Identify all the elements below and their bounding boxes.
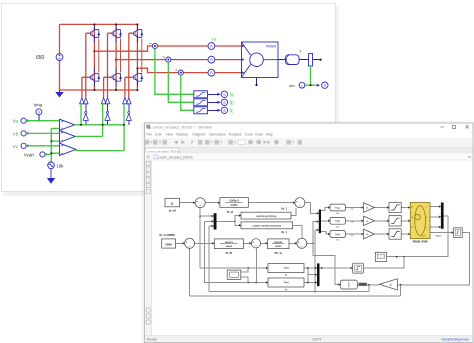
svg-text:(0.4932+0.34*158)*u(1)*u(2)*u(: (0.4932+0.34*158)*u(1)*u(2)*u(3) xyxy=(253,225,282,228)
wire sum5 to PC_iq xyxy=(261,242,268,244)
block PI_W xyxy=(214,239,243,249)
svg-text:Ib: Ib xyxy=(230,101,234,107)
wire gain to sat xyxy=(375,220,390,222)
gate driver leg1.1 xyxy=(80,98,85,104)
gain a xyxy=(364,203,375,213)
current probe b xyxy=(166,57,171,62)
node leg 2 bottom xyxy=(115,89,117,91)
wire machine neutral xyxy=(256,78,258,85)
block PI_id xyxy=(220,198,248,208)
wire mux3 to zoh xyxy=(320,267,353,269)
scope S3 xyxy=(221,107,227,113)
svg-text:Ia: Ia xyxy=(426,207,427,209)
wire w to mux2 in3 xyxy=(315,230,319,292)
mux1 xyxy=(214,213,217,229)
gate driver inverter leg2 xyxy=(105,114,110,121)
svg-text:Ts(z): Ts(z) xyxy=(284,267,289,269)
svg-text:Vma: Vma xyxy=(34,103,43,108)
svg-text:>: > xyxy=(301,84,303,88)
shaft wire xyxy=(278,59,319,61)
schematic window frame xyxy=(2,4,339,196)
wire id blk to mux3 xyxy=(304,267,317,269)
svg-text:id_ref: id_ref xyxy=(169,209,176,213)
node leg 1 top xyxy=(93,23,95,25)
status bar xyxy=(145,336,473,342)
wire to display2 in2 xyxy=(241,277,248,283)
wire probe drop c xyxy=(181,75,194,110)
transistor Q5 bottom xyxy=(112,68,122,86)
sum sum4 xyxy=(297,238,307,248)
wire leg 3 vertical xyxy=(136,24,138,90)
wire PI_id to sum3 xyxy=(248,202,295,204)
block W_ref constant xyxy=(162,239,176,248)
gate driver leg3.1 xyxy=(123,98,128,104)
block rate transition xyxy=(340,280,357,289)
wire zoh out up xyxy=(363,257,404,268)
wire sum3 to mux2 xyxy=(305,203,319,214)
wire F1 to scope xyxy=(208,93,221,95)
svg-text:-K-: -K- xyxy=(389,285,392,287)
wire ts to gain xyxy=(345,233,363,235)
gain c xyxy=(364,229,375,239)
block PMSM_PSIM yellow xyxy=(410,203,430,239)
sum sum1 xyxy=(195,198,205,208)
signal label dark xyxy=(359,283,367,286)
machine PMSM xyxy=(242,42,279,78)
wire fcn2 to sum4 xyxy=(293,225,302,238)
wire mux2 out1 xyxy=(321,208,330,211)
svg-text:pmsm_simulace_R2016: pmsm_simulace_R2016 xyxy=(159,155,193,159)
wire ts to gain xyxy=(345,207,363,209)
voltage source 650 xyxy=(56,54,63,61)
wire sat to pmsm xyxy=(401,233,410,235)
node leg 3 top xyxy=(136,23,138,25)
svg-text:0.005s: 0.005s xyxy=(231,205,239,207)
wire leg 1 diode column xyxy=(98,39,100,73)
svg-text:Ufc: Ufc xyxy=(336,240,339,242)
wire gate bottom Q4 xyxy=(82,77,91,97)
block Ts filter a xyxy=(330,204,345,211)
wire pmsm out xyxy=(430,226,441,228)
wire gate top Q3 xyxy=(129,33,134,97)
svg-text:Vfa: Vfa xyxy=(411,207,414,209)
sum sum3 xyxy=(295,198,305,208)
op-amp comparator U1 xyxy=(60,119,75,130)
block speed sensor xyxy=(454,228,463,238)
wire source leads xyxy=(59,24,61,91)
current probe a xyxy=(152,43,157,48)
block display2 xyxy=(227,270,241,279)
wire driver green drop leg3 xyxy=(123,104,125,125)
svg-text:Ic: Ic xyxy=(230,109,234,115)
gate driver leg3.2 xyxy=(127,98,132,104)
wire merge stub xyxy=(308,268,317,283)
simulink window xyxy=(142,122,474,343)
wire sat to pmsm xyxy=(401,207,410,209)
wire speed feedback right xyxy=(397,233,469,285)
wire gate top Q1 xyxy=(86,33,91,97)
wire phase C xyxy=(137,68,241,72)
transistor Q2 top xyxy=(112,25,122,43)
wire id_ref to sum1 xyxy=(180,202,196,204)
gate driver inverter leg1 xyxy=(83,114,88,121)
wire leg 3 diode column xyxy=(141,39,143,73)
saturation a xyxy=(389,202,401,212)
wire pmsm out xyxy=(430,206,441,208)
gate driver leg1.2 xyxy=(84,98,89,104)
svg-text:650: 650 xyxy=(36,55,45,61)
svg-text:Vcarr: Vcarr xyxy=(24,153,35,158)
wire w to mux1 in3 xyxy=(209,226,214,292)
wire sat to pmsm xyxy=(401,220,410,222)
wire leg 2 diode column xyxy=(120,39,122,73)
block id_ref constant xyxy=(165,198,180,207)
left sidebar xyxy=(145,160,152,335)
node leg 1 phase xyxy=(93,50,95,52)
saturation c xyxy=(389,229,401,239)
svg-text:Ts(z): Ts(z) xyxy=(335,221,340,223)
wire bottom DC rail xyxy=(60,89,138,91)
wire iq row left xyxy=(204,282,268,284)
svg-text:Va: Va xyxy=(13,119,19,125)
svg-text:Edit: Edit xyxy=(155,133,161,137)
wire gate bottom Q6 xyxy=(125,77,134,97)
gain b xyxy=(364,216,375,226)
wire probe drop a xyxy=(155,49,194,95)
wire phase A xyxy=(94,46,241,51)
svg-text:S: S xyxy=(324,84,327,88)
speed sensor block xyxy=(309,54,313,67)
wire top DC rail xyxy=(60,23,138,25)
wire gainL out xyxy=(357,284,379,286)
wire to mux1 in1 xyxy=(200,215,213,217)
svg-text:PC_iq: PC_iq xyxy=(275,251,283,255)
svg-text:-K-: -K- xyxy=(366,234,369,236)
wire gain to sat xyxy=(375,233,390,235)
svg-text:0: 0 xyxy=(171,202,173,206)
wire id feedback up to sum1 xyxy=(200,208,268,268)
svg-text:Ts(z): Ts(z) xyxy=(335,207,340,209)
svg-text:Display: Display xyxy=(177,133,189,137)
wire mux1 out xyxy=(217,220,236,222)
svg-text:Wrpm: Wrpm xyxy=(436,236,442,238)
svg-text:Code: Code xyxy=(245,133,253,137)
svg-text:100%: 100% xyxy=(312,338,322,342)
saturation b xyxy=(389,216,401,226)
wire phase B xyxy=(116,59,241,61)
wire speed green xyxy=(305,66,317,85)
wire mux2 out3 xyxy=(321,232,330,235)
wire driver green drop leg1 xyxy=(80,104,82,125)
wire driver link leg1 xyxy=(85,104,87,125)
op-amp comparator U3 xyxy=(60,143,77,155)
svg-text:-K-: -K- xyxy=(366,208,369,210)
ammeter A2 xyxy=(208,56,215,63)
svg-text:pmsm_simulace_R2016 * - Simuli: pmsm_simulace_R2016 * - Simulink xyxy=(153,126,212,130)
wire leg 2 vertical xyxy=(115,24,117,90)
node leg 3 phase xyxy=(136,67,138,69)
svg-text:Vfc: Vfc xyxy=(351,235,354,237)
mux2 demux xyxy=(319,210,321,234)
svg-text:Vfc: Vfc xyxy=(411,227,414,229)
wire sum4 down to rate block xyxy=(313,243,340,284)
svg-text:Diagram: Diagram xyxy=(192,133,205,137)
svg-text:S: S xyxy=(223,93,226,97)
svg-text:View: View xyxy=(166,133,174,137)
filter block F2 xyxy=(194,99,208,106)
transistor Q1 top xyxy=(91,25,101,43)
wire gate bottom Q5 xyxy=(104,77,113,97)
wire wrpm to sensor block xyxy=(430,232,454,234)
svg-text:Analysis: Analysis xyxy=(229,133,242,137)
svg-text:S: S xyxy=(223,101,226,105)
wire driver link leg2 xyxy=(107,104,109,125)
inertia J cylinder xyxy=(286,55,300,65)
wire iq blk to mux3 xyxy=(304,282,317,284)
wire pmsm out xyxy=(430,216,441,218)
wire feedback mid xyxy=(209,285,369,292)
filter block F3 xyxy=(194,107,208,114)
block Ts id xyxy=(268,264,304,273)
wire F2 to scope xyxy=(208,101,221,103)
wire to display2 in1 xyxy=(241,268,248,272)
svg-text:A: A xyxy=(210,44,213,49)
wire sum2 to PI_W xyxy=(195,242,215,244)
node leg 3 bottom xyxy=(136,89,138,91)
svg-text:Tools: Tools xyxy=(255,133,263,137)
svg-text:PMSM: PMSM xyxy=(266,45,276,49)
tab bar xyxy=(145,148,473,154)
svg-text:Ib: Ib xyxy=(426,217,427,219)
wire sum1 to PI_id xyxy=(205,202,220,204)
wire sum4 out xyxy=(307,242,313,244)
filter block F1 xyxy=(194,91,208,98)
svg-text:60000: 60000 xyxy=(226,246,233,248)
scope S2 xyxy=(221,99,227,105)
svg-text:Vd_1: Vd_1 xyxy=(281,207,288,210)
wire F3 to scope xyxy=(208,109,221,111)
svg-text:Vfb: Vfb xyxy=(411,217,414,219)
wire to sum2 bottom xyxy=(189,249,191,296)
op-amp comparator U2 xyxy=(60,130,76,142)
block display1 xyxy=(375,252,386,261)
simulink canvas diagram xyxy=(159,198,469,296)
node leg 2 top xyxy=(115,23,117,25)
svg-text:Ic: Ic xyxy=(426,227,427,229)
node leg 2 phase xyxy=(115,59,117,61)
om sensor xyxy=(299,82,305,88)
wire gain to sat xyxy=(375,207,390,209)
block PC_iq xyxy=(268,239,289,249)
wire mux2 out2 xyxy=(321,220,330,222)
wire wref to sum2 xyxy=(176,242,185,244)
wire PI_W to sum5 xyxy=(243,242,251,244)
wire PC_iq to sum4 xyxy=(289,242,297,244)
wire iq to mux1 in2 xyxy=(204,221,213,282)
wire comp outputs xyxy=(75,125,125,151)
transistor Q4 bottom xyxy=(91,68,101,86)
svg-text:om: om xyxy=(289,83,295,88)
svg-text:Ia: Ia xyxy=(230,93,234,99)
svg-text:A: A xyxy=(210,57,213,62)
block Ts filter c xyxy=(330,231,345,238)
wire sum4 to mux2 in2 xyxy=(313,222,319,244)
gate driver leg2.2 xyxy=(105,98,110,104)
wire Vb xyxy=(26,132,59,134)
sum sum2 xyxy=(185,238,195,248)
wire fan to fcn2 xyxy=(235,221,241,225)
scope om xyxy=(322,82,328,88)
svg-text:PI_id: PI_id xyxy=(227,210,234,214)
svg-text:-K-: -K- xyxy=(366,221,369,223)
ammeter A1 xyxy=(208,43,215,50)
wire feedback bottom xyxy=(190,285,401,296)
wire gate top Q2 xyxy=(108,33,113,97)
block fcn Vq xyxy=(241,222,293,229)
svg-text:PI_W: PI_W xyxy=(226,251,233,255)
wire leg 1 vertical xyxy=(93,24,95,90)
svg-text:60000: 60000 xyxy=(275,246,282,248)
transistor Q3 top xyxy=(134,25,144,43)
breadcrumb xyxy=(145,154,473,161)
wire ts to gain xyxy=(345,220,363,222)
svg-text:File: File xyxy=(146,133,152,137)
svg-text:Ready: Ready xyxy=(147,338,158,342)
block fcn Vd xyxy=(241,212,291,219)
svg-text:Help: Help xyxy=(266,133,273,137)
svg-text:A: A xyxy=(210,70,213,75)
gate driver leg2.1 xyxy=(101,98,106,104)
svg-text:2000: 2000 xyxy=(165,243,172,247)
svg-text:VariableStepAuto: VariableStepAuto xyxy=(441,338,469,342)
block Ts filter b xyxy=(330,217,345,224)
block zoh xyxy=(353,263,364,273)
svg-text:10k: 10k xyxy=(57,163,65,168)
wire carrier xyxy=(45,128,60,162)
demux3 xyxy=(441,203,444,229)
svg-text:Vq_1: Vq_1 xyxy=(281,231,288,234)
svg-text:Vb: Vb xyxy=(13,131,19,137)
carrier source 10k xyxy=(48,162,55,169)
svg-text:PMSM_PSIM: PMSM_PSIM xyxy=(413,241,428,244)
title bar xyxy=(146,125,469,130)
svg-text:pmsm_simulace_R2016: pmsm_simulace_R2016 xyxy=(147,149,180,153)
gate driver inverter leg3 xyxy=(126,114,131,121)
wire iq to sum5 xyxy=(255,248,257,282)
svg-text:Ia: Ia xyxy=(212,37,216,43)
scope S1 xyxy=(221,91,227,97)
wire fcn1 to sum3 xyxy=(291,208,296,215)
svg-text:S: S xyxy=(223,109,226,113)
wire probe drop b xyxy=(168,62,194,102)
wire driver green drop leg2 xyxy=(102,104,104,125)
svg-text:J: J xyxy=(299,50,301,54)
sum sum5 xyxy=(251,239,260,248)
svg-text:Wrpm: Wrpm xyxy=(422,235,427,238)
wire Va xyxy=(26,120,59,122)
svg-text:Vc: Vc xyxy=(13,144,19,150)
menu bar xyxy=(146,133,273,137)
toolbar xyxy=(145,138,473,148)
svg-text:W_ref (RPM): W_ref (RPM) xyxy=(159,233,175,237)
wire fan to fcn1 xyxy=(235,216,241,222)
mux3 xyxy=(317,263,320,286)
ground xyxy=(55,90,63,98)
svg-text:0.34*158*u(2)*(2*(2/3)): 0.34*158*u(2)*(2*(2/3)) xyxy=(256,215,277,218)
transistor Q6 bottom xyxy=(134,68,144,86)
svg-text:Ts(z): Ts(z) xyxy=(284,282,289,284)
wire driver link leg3 xyxy=(128,104,130,125)
ground carrier xyxy=(50,169,52,178)
svg-text:Simulation: Simulation xyxy=(209,133,225,137)
wire demux3 to display1 xyxy=(387,216,449,257)
block Ts iq xyxy=(268,278,304,287)
current probe c xyxy=(178,70,183,75)
svg-text:Ts(z): Ts(z) xyxy=(335,234,340,236)
ammeter A3 xyxy=(208,69,215,76)
gain Ki left xyxy=(379,279,397,290)
wire Vc xyxy=(26,145,59,147)
node leg 1 bottom xyxy=(93,89,95,91)
